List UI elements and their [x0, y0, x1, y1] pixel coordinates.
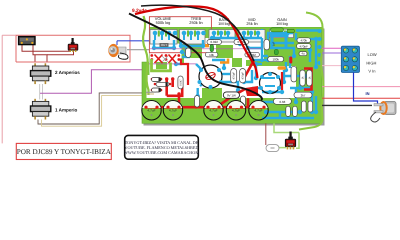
svg-text:10k: 10k: [209, 53, 214, 57]
svg-text:0.047: 0.047: [180, 79, 183, 86]
component capsules with values: [205, 38, 312, 105]
svg-text:470pF: 470pF: [299, 44, 308, 48]
grey X: [162, 56, 168, 62]
svg-text:IN: IN: [366, 91, 370, 96]
fuse F2: [31, 99, 51, 120]
jack J3 (output, bottom right): [371, 101, 396, 122]
svg-text:4,7uF: 4,7uF: [254, 109, 262, 113]
wire: dark pair from fuse F2 to board: [38, 93, 149, 124]
svg-text:500k log: 500k log: [156, 20, 171, 25]
labels: pot names: [155, 16, 288, 26]
svg-text:9.2vdc: 9.2vdc: [132, 8, 147, 14]
svg-text:OUT: OUT: [161, 43, 168, 47]
pads column on right edge: [318, 29, 322, 65]
svg-text:2k7: 2k7: [301, 93, 306, 97]
wire: salmon loop rectangle: [16, 35, 130, 62]
resistor 0.68: [273, 98, 291, 104]
svg-text:LOW: LOW: [368, 52, 377, 57]
svg-text:2 Amperios: 2 Amperios: [55, 70, 80, 75]
wire: maroon to oval: [265, 123, 267, 145]
wire: grey from jack into board: [127, 49, 158, 51]
wire: blue U under VOLUME: [154, 40, 174, 48]
connector J1 (DC power): [19, 37, 35, 45]
wire: connector to switch dark red: [22, 45, 74, 62]
wire: purple from fuses to board: [40, 70, 152, 93]
svg-text:470pF: 470pF: [241, 72, 244, 80]
red X marks (crossed pads): [155, 55, 177, 64]
svg-text:POR DJC89 Y TONYGT-IBIZA: POR DJC89 Y TONYGT-IBIZA: [17, 148, 112, 156]
green diode D1: [210, 45, 214, 52]
svg-text:4,7uF: 4,7uF: [169, 109, 177, 113]
terminal block TB1: [341, 46, 359, 72]
switch SW2 (bottom toggle): [285, 132, 295, 150]
red dots pairs near diodes: [151, 78, 172, 92]
zener 9V 1W: [223, 92, 239, 98]
green patches restoring board: [156, 45, 242, 98]
wire: black to jack: [322, 104, 372, 106]
labels: LOW / HIGH / V In: [366, 52, 376, 73]
label: OUT tag: [160, 43, 169, 47]
rotary pot P1 (big circle center): [198, 65, 224, 89]
svg-text:1M log: 1M log: [218, 21, 230, 26]
svg-text:4,7uF: 4,7uF: [232, 109, 240, 113]
resistor 0.022 b: [234, 40, 249, 45]
wires: right side exits: [322, 47, 341, 49]
capacitor 470pF: [297, 44, 312, 49]
rotary pot P2 (right circle): [259, 72, 282, 94]
svg-text:1 Amperio: 1 Amperio: [55, 108, 77, 113]
blue pads scattered: [152, 36, 318, 114]
top white strip over board: [142, 13, 322, 27]
resistor 470k: [297, 38, 311, 43]
svg-text:HIGH: HIGH: [366, 61, 376, 66]
green bars between pads: [158, 31, 286, 37]
lamp (white oval): [266, 145, 279, 152]
green jumper pills top right: [271, 28, 284, 32]
svg-text:9V 1W: 9V 1W: [227, 94, 236, 98]
wire: purple thin across board: [150, 48, 262, 50]
small diodes left: [152, 78, 170, 93]
resistor 0.022 a: [207, 40, 222, 45]
electrolytic caps row (4,7uF circles): [142, 101, 268, 120]
wire: blue from jack into board: [117, 40, 152, 42]
wire: tan pair: [42, 96, 150, 127]
resistor 10k: [205, 52, 218, 57]
svg-text:470k: 470k: [300, 38, 307, 42]
black wire B (alongside red): [141, 5, 254, 61]
label: red credit box: [16, 143, 111, 159]
jack J2 (input, left): [108, 44, 128, 59]
board shadow: [323, 29, 325, 126]
resistor 2k7: [294, 92, 312, 98]
label: youtube note box: [124, 135, 199, 159]
orange parts: [220, 59, 228, 63]
svg-text:250k lin: 250k lin: [189, 20, 202, 25]
resistor 0.022 c: [245, 52, 260, 57]
svg-text:470pF: 470pF: [233, 72, 236, 80]
resistor 4u: [299, 52, 307, 56]
black curl lug wire: [118, 53, 128, 59]
vertical capsules: [178, 39, 313, 116]
wire: pale green from board: [274, 123, 299, 132]
red wire 9.2vdc (thick curve): [135, 6, 258, 78]
svg-text:100k: 100k: [272, 57, 279, 61]
black wire A (long diagonal): [129, 14, 262, 101]
svg-text:4u: 4u: [301, 52, 305, 56]
wire: lime right side: [299, 13, 324, 130]
svg-text:V In: V In: [368, 68, 375, 73]
fuse F1: [31, 63, 51, 84]
wire: between fuses: [40, 84, 43, 100]
red LED: [289, 57, 292, 64]
board: green PCB: [142, 27, 322, 123]
svg-text:4,7uF: 4,7uF: [147, 109, 155, 113]
label: red frame around VOLUME/TREB: [149, 17, 211, 53]
wire: lime loop to switch: [279, 133, 299, 149]
svg-text:0.022: 0.022: [210, 40, 218, 44]
svg-text:1M log: 1M log: [276, 21, 288, 26]
pot footprint boxes (5): [150, 29, 294, 44]
red solid blob: [245, 86, 258, 96]
green diode D2: [274, 49, 278, 54]
svg-text:4,7uF: 4,7uF: [209, 109, 217, 113]
grey stub wire: [146, 91, 156, 93]
black curl: [371, 112, 380, 122]
svg-text:25k lin: 25k lin: [246, 21, 257, 26]
svg-text:WWW.YOUTUBE.COM CAMARACHOM: WWW.YOUTUBE.COM CAMARACHOM: [124, 150, 199, 155]
switch SW1 (top toggle): [68, 38, 78, 52]
wire: lime left wavy: [143, 16, 148, 95]
silkscreen white zones on board: [147, 38, 297, 98]
svg-text:1uF: 1uF: [273, 41, 276, 46]
red trace network bottom center: [146, 59, 312, 108]
blue trace network: [154, 29, 318, 118]
wire: far-left pink vertical: [2, 35, 16, 143]
wire: blue to jack IN: [354, 73, 378, 107]
svg-text:0.68: 0.68: [279, 100, 285, 104]
wire: lime L trace on board: [152, 59, 171, 71]
blue pads in pot boxes: [153, 31, 290, 36]
resistor 100k: [268, 57, 284, 62]
